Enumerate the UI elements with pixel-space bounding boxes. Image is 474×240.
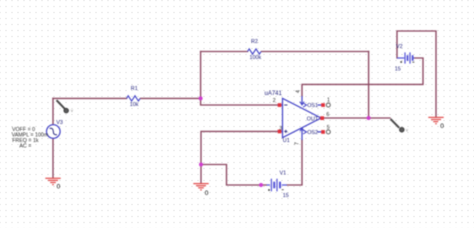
svg-text:AC =: AC = [19, 144, 31, 150]
svg-text:5: 5 [327, 125, 330, 131]
svg-text:v: v [71, 108, 74, 113]
svg-text:R1: R1 [131, 86, 138, 92]
svg-text:uA741: uA741 [265, 91, 283, 97]
svg-text:OS1: OS1 [307, 103, 318, 109]
svg-text:15: 15 [395, 67, 401, 73]
svg-text:2: 2 [273, 98, 276, 104]
svg-text:4: 4 [295, 90, 301, 93]
svg-text:V3: V3 [56, 120, 63, 126]
svg-text:10k: 10k [130, 102, 139, 108]
svg-text:100k: 100k [250, 55, 262, 61]
svg-text:R2: R2 [251, 39, 258, 45]
svg-text:7: 7 [294, 142, 300, 145]
svg-text:0: 0 [57, 183, 61, 190]
svg-text:OS2: OS2 [307, 130, 318, 136]
svg-text:15: 15 [283, 193, 289, 199]
svg-text:V1: V1 [280, 171, 287, 177]
svg-text:U1: U1 [283, 138, 290, 144]
svg-text:3: 3 [279, 126, 282, 132]
svg-text:0: 0 [440, 123, 444, 130]
svg-text:0: 0 [205, 190, 209, 197]
svg-text:1: 1 [327, 97, 330, 103]
svg-text:OUT: OUT [307, 116, 319, 122]
svg-text:v: v [406, 128, 409, 133]
svg-text:6: 6 [326, 112, 329, 118]
svg-text:V2: V2 [396, 44, 403, 50]
